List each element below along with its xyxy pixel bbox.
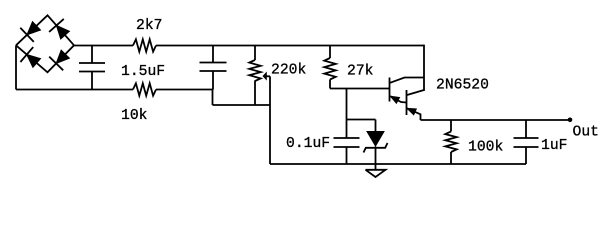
svg-text:27k: 27k	[347, 63, 374, 79]
wire base	[330, 88, 390, 90]
wire top rail left	[74, 45, 133, 47]
potentiometer R3 wiper	[263, 73, 270, 164]
wire bottom left rail	[16, 89, 133, 91]
label C4 1uF	[541, 138, 567, 154]
label C1 1.5uF	[121, 64, 165, 80]
wire bottom left rail right	[156, 89, 213, 91]
svg-text:2N6520: 2N6520	[436, 78, 489, 94]
label R3 220k	[271, 63, 306, 79]
diode D4 bridge bottom-right	[49, 50, 69, 70]
resistor R5 100k	[445, 120, 456, 164]
transistor Q1 base bar	[389, 78, 391, 102]
label R5 100k	[468, 140, 503, 156]
svg-text:0.1uF: 0.1uF	[286, 136, 330, 152]
wire jog down at C2	[212, 90, 214, 106]
label R2 10k	[121, 108, 148, 124]
svg-text:2k7: 2k7	[136, 18, 162, 34]
wire top rail right	[156, 45, 424, 47]
wire mid rail	[213, 104, 271, 106]
wire bridge diamond	[16, 15, 74, 72]
label Q1 2N6520	[436, 78, 489, 94]
svg-text:10k: 10k	[121, 108, 148, 124]
diode D2 bridge top-right	[49, 19, 69, 39]
transistor Q2 collector	[407, 90, 424, 95]
ground	[366, 164, 386, 177]
diode D1 bridge top-left	[20, 22, 40, 42]
capacitor C2	[200, 46, 227, 90]
capacitor C1 1.5uF	[79, 46, 105, 90]
resistor R1 2k7	[133, 39, 156, 51]
label C3 0.1uF	[286, 136, 330, 152]
wire bottom rail	[270, 163, 526, 165]
label Out	[573, 124, 599, 140]
zener diode D5	[364, 132, 388, 165]
svg-text:Out: Out	[573, 124, 599, 140]
wire branch to zener	[347, 120, 376, 132]
svg-text:100k: 100k	[468, 140, 503, 156]
diode D3 bridge bottom-left	[20, 47, 40, 67]
svg-text:220k: 220k	[271, 63, 306, 79]
potentiometer R3 220k	[249, 46, 260, 106]
transistor Q1 emitter	[391, 96, 407, 103]
label R4 27k	[347, 63, 374, 79]
node Out terminal dot	[568, 118, 573, 123]
resistor R2 10k	[133, 83, 156, 95]
wire output	[421, 119, 571, 121]
capacitor C3 0.1uF	[334, 138, 360, 164]
transistor Q2 emitter	[407, 108, 420, 120]
transistor Q2 base bar	[406, 90, 408, 115]
svg-text:1.5uF: 1.5uF	[121, 64, 165, 80]
wire collector trunk	[423, 45, 425, 91]
wire drop to C3	[346, 89, 348, 139]
svg-text:1uF: 1uF	[541, 138, 567, 154]
capacitor C4 1uF	[514, 120, 539, 164]
label R1 2k7	[136, 18, 162, 34]
transistor Q1 collector	[390, 78, 424, 83]
wire bridge left vertex down	[15, 45, 17, 89]
resistor R4 27k	[324, 46, 335, 89]
